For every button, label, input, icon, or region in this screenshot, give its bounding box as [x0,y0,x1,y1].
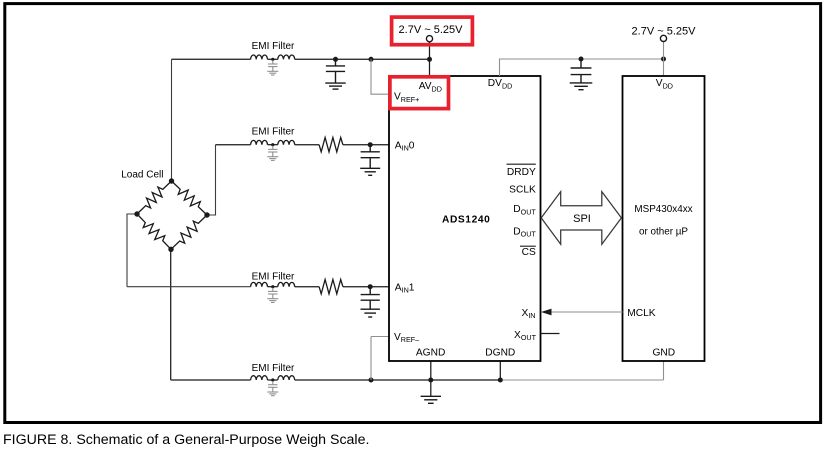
C4 (AIN1 filter) capacitor [361,287,380,310]
svg-text:XIN: XIN [522,308,536,320]
EMI filter 2 inductor L2 [278,140,295,144]
C3 (AIN0 filter) capacitor [361,145,380,169]
wire VREF- pin drop [370,337,372,381]
wire EMI filter 1 mid segment [268,58,278,60]
svg-text:DGND: DGND [485,347,515,358]
EMI filter 1 inductor L2 [278,55,295,59]
svg-text:EMI Filter: EMI Filter [252,127,295,138]
EMI filter 4 inductor L2 [278,376,295,380]
EMI filter 3 shunt capacitor (small, to ground) [268,288,277,299]
EMI filter 4 shunt capacitor (small, to ground) [268,381,277,392]
arrowhead into XIN [541,309,552,316]
svg-text:DOUT: DOUT [513,226,536,238]
svg-text:DVDD: DVDD [488,78,513,90]
wire bridge left node down to AIN1 line [127,214,137,287]
series resistor R (AIN1) [319,280,343,294]
svg-text:SCLK: SCLK [509,184,536,195]
svg-text:AGND: AGND [416,347,445,358]
junction AIN0 / C3 tap [368,142,373,147]
C4 (AIN1 filter) ground symbol [361,309,380,317]
svg-text:AIN1: AIN1 [395,282,415,294]
svg-text:or other µP: or other µP [639,226,688,237]
wire bridge right node up to AIN0 line [207,145,216,215]
junction VDD supply node [661,57,666,62]
wire EMI filter 4 mid segment [268,379,278,381]
red highlight box around analog supply label [392,17,473,45]
wire EMI filter 2 to series resistor [295,144,319,146]
wire resistor to AIN1 pin [343,286,389,288]
EMI filter 4 small ground symbol [267,392,278,396]
C2 (DVDD bypass) ground symbol [570,83,593,90]
EMI filter 3 inductor L1 [251,282,268,286]
junction bridge right node [204,212,209,217]
wire DVDD to VDD supply rail [500,59,664,76]
red highlight box around AVDD / VREF+ pins [390,77,449,109]
IC U1 ADS1240 ADC box [389,76,541,361]
EMI filter 4 midpoint junction [271,378,274,381]
EMI filter 2 shunt capacitor (small, to ground) [268,146,277,157]
supply terminal circle (analog 2.7V~5.25V) [426,36,432,42]
wire ground bus to MSP430 GND [500,379,663,381]
EMI filter 2 inductor L1 [251,140,268,144]
wire ground bus (analog section) [295,379,501,381]
wire EMI filter 3 to series resistor [295,286,319,288]
junction AIN1 / C4 tap [368,284,373,289]
series resistor R (AIN0) [319,138,343,152]
svg-text:XOUT: XOUT [514,330,537,342]
svg-text:EMI Filter: EMI Filter [252,271,295,282]
EMI filter 2 midpoint junction [271,143,274,146]
wire reference line left segment [171,379,251,381]
junction top line / C1 [333,57,338,62]
svg-text:VREF+: VREF+ [394,92,419,104]
wire bridge top node up to excitation line [171,59,173,181]
junction ground bus / VREF- tap [369,378,374,383]
wire EMI filter 2 mid segment [268,144,278,146]
wire supply terminal to AVDD pin [429,42,431,76]
EMI filter 4 inductor L1 [251,376,268,380]
EMI filter 1 shunt capacitor (small, to ground) [268,60,277,71]
wire EMI filter 3 mid segment [268,286,278,288]
svg-text:MSP430x4xx: MSP430x4xx [634,204,692,215]
junction bridge top node [169,178,174,183]
microcontroller U2 MSP430x4xx box [623,76,705,361]
svg-text:AVDD: AVDD [419,81,442,93]
EMI filter 3 midpoint junction [271,285,274,288]
C2 (DVDD bypass) capacitor [571,59,592,83]
wire EMI filter 1 to AVDD node [295,58,430,60]
svg-text:MCLK: MCLK [627,308,656,319]
wire DGND pin to ground bus [499,361,501,380]
svg-text:EMI Filter: EMI Filter [252,363,295,374]
junction ground bus / DGND [498,378,503,383]
junction AVDD supply node [427,57,432,62]
junction top line / VREF+ tap [369,57,374,62]
svg-text:GND: GND [652,347,675,358]
EMI filter 1 small ground symbol [267,71,278,75]
svg-text:VDD: VDD [656,78,673,90]
EMI filter 1 inductor L1 [251,55,268,59]
wire resistor to AIN0 pin [343,144,389,146]
C1 (AVDD-VREF+ bypass) capacitor [326,59,345,83]
load cell bridge resistor bottom-right [171,215,207,249]
wire MCLK to XIN [551,311,623,313]
load cell bridge resistor top-left [137,181,172,214]
wire AGND pin to ground bus [430,361,432,380]
wire AIN0 line left segment [216,144,251,146]
ground symbol (system ground) [421,396,441,403]
wire bridge top to EMI filter 1 [172,58,251,60]
junction rail / C2 tap [579,57,584,62]
svg-text:AIN0: AIN0 [395,140,415,152]
wire AIN1 line left segment [127,286,251,288]
SPI bidirectional bus arrow [541,192,621,245]
wire bridge bottom node down to reference line [170,249,172,380]
svg-text:EMI Filter: EMI Filter [252,41,295,52]
EMI filter 2 small ground symbol [267,157,278,161]
svg-text:2.7V ~ 5.25V: 2.7V ~ 5.25V [632,25,697,37]
svg-text:ADS1240: ADS1240 [442,215,490,226]
svg-text:SPI: SPI [573,213,591,225]
C3 (AIN0 filter) ground symbol [360,168,380,175]
svg-text:VREF–: VREF– [394,332,419,344]
svg-text:Load Cell: Load Cell [121,170,163,181]
svg-text:DOUT: DOUT [513,204,536,216]
EMI filter 3 inductor L2 [278,282,295,286]
wire VREF+ tap to VREF+ pin [371,59,389,94]
wire AGND to ground symbol [430,380,432,396]
svg-text:DRDY: DRDY [507,167,536,178]
svg-text:2.7V ~ 5.25V: 2.7V ~ 5.25V [399,24,464,36]
load cell bridge resistor top-right [172,181,208,215]
supply terminal circle (digital 2.7V~5.25V) [660,35,666,41]
wire VREF- pin stub [371,336,389,338]
junction bridge bottom node [168,247,173,252]
EMI filter 1 midpoint junction [271,58,274,61]
junction ground bus / AGND [428,378,433,383]
EMI filter 3 small ground symbol [267,299,278,303]
svg-text:CS: CS [522,247,536,258]
wire XOUT stub [541,333,560,335]
junction bridge left node [134,211,139,216]
wire supply terminal to VDD pin [663,42,665,77]
figure caption [3,432,369,448]
wire MSP430 GND to ground bus [663,361,665,380]
load cell bridge resistor bottom-left [137,214,171,249]
C1 (AVDD-VREF+ bypass) ground symbol [325,83,345,89]
